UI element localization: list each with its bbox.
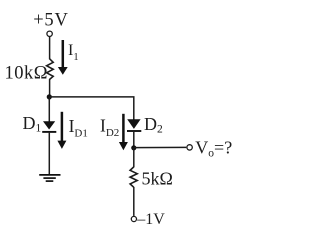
current arrow ID1 bbox=[57, 112, 66, 149]
wire node A to right corner bbox=[49, 97, 134, 120]
svg-text:Vo=?: Vo=? bbox=[195, 138, 232, 160]
wire node B to output terminal bbox=[134, 146, 187, 148]
diode D1 bbox=[42, 121, 56, 132]
wire resistor R2 to -1V terminal bbox=[133, 187, 135, 216]
svg-text:+5V: +5V bbox=[33, 10, 68, 30]
wire diode D2 to node B bbox=[133, 131, 135, 150]
svg-text:–1V: –1V bbox=[136, 211, 165, 228]
wire node B to resistor R2 bbox=[133, 148, 135, 168]
ground bbox=[39, 175, 60, 181]
wire from +5V terminal to resistor R1 bbox=[49, 37, 51, 59]
current arrow ID2 bbox=[119, 114, 128, 151]
current arrow I1 bbox=[58, 40, 68, 75]
wire node A to diode D1 bbox=[48, 97, 50, 122]
node B junction dot bbox=[131, 145, 136, 150]
terminal -1V bbox=[131, 216, 136, 221]
svg-text:10kΩ: 10kΩ bbox=[5, 64, 49, 84]
node A junction dot bbox=[47, 94, 52, 99]
wire diode D1 to ground bbox=[48, 132, 50, 175]
resistor R1 10kOhm zigzag bbox=[47, 59, 54, 80]
terminal Vo bbox=[187, 145, 192, 150]
resistor R2 5kOhm zigzag bbox=[130, 167, 137, 187]
diode D2 bbox=[127, 119, 141, 131]
terminal +5V bbox=[47, 31, 52, 36]
svg-text:5kΩ: 5kΩ bbox=[142, 169, 173, 189]
wire resistor R1 to node A bbox=[49, 79, 51, 97]
